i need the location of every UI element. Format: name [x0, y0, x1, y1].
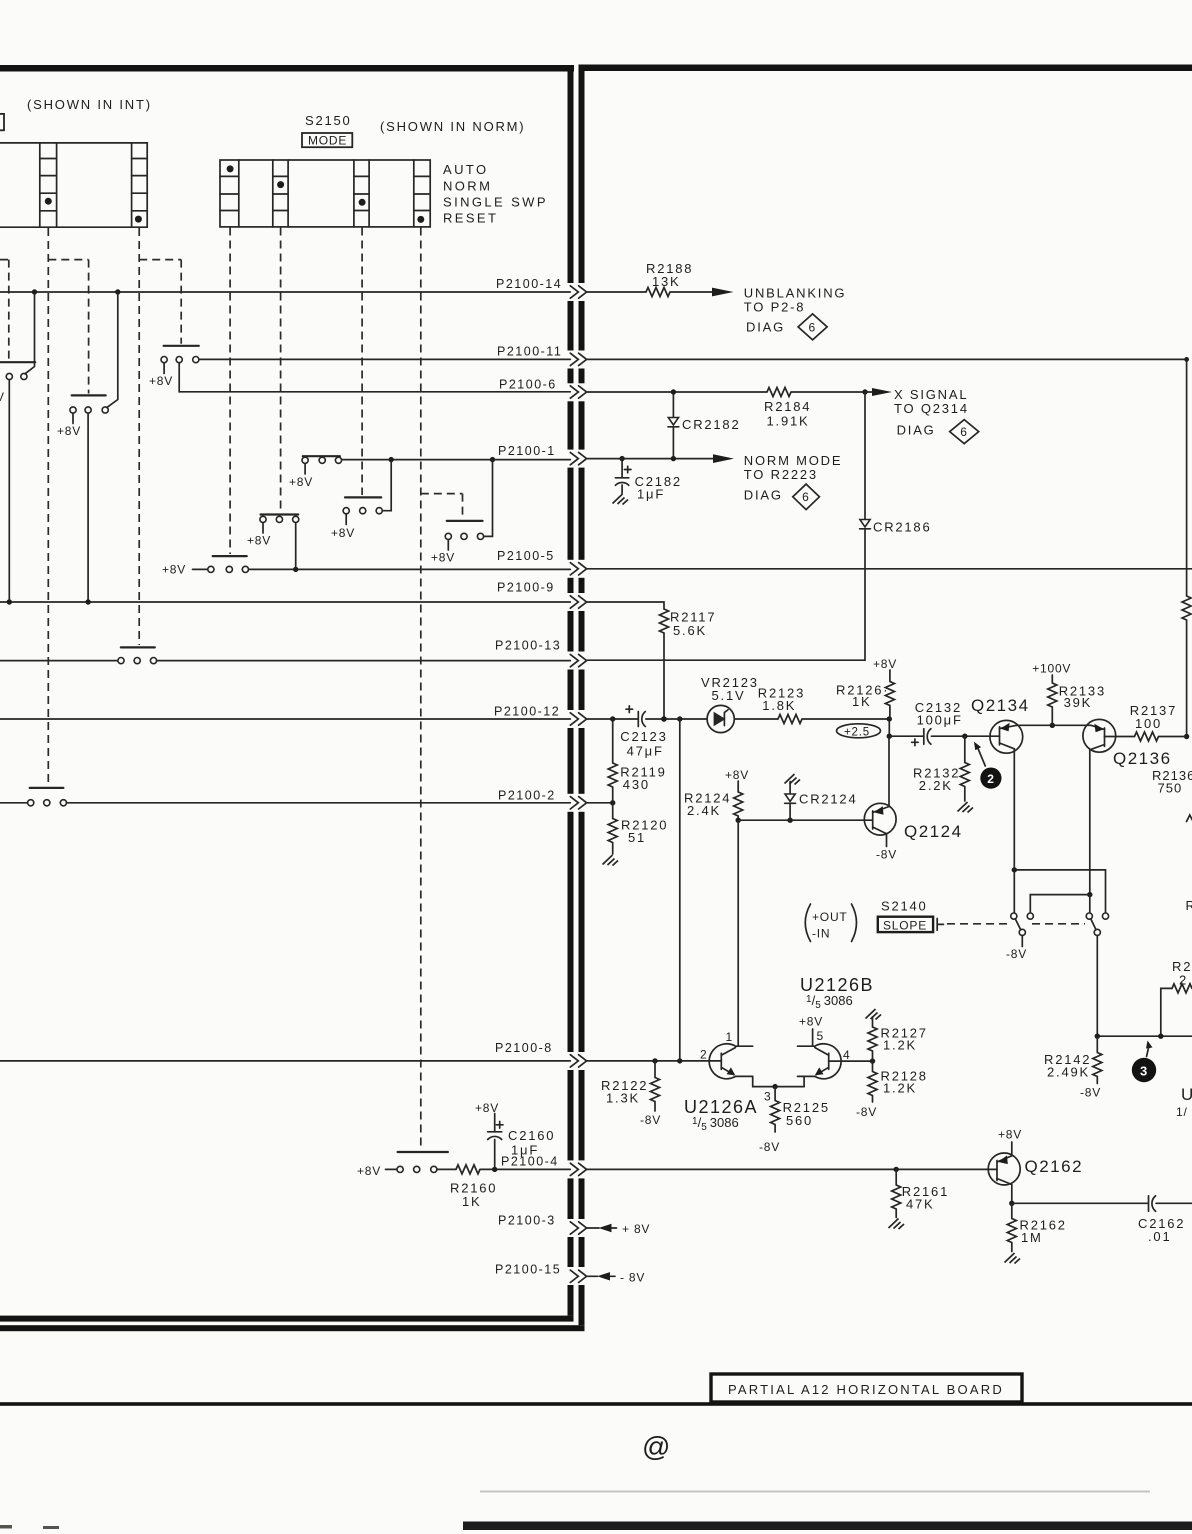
svg-text:RESET: RESET	[443, 211, 498, 226]
frame: left section bottom border (outer line)	[0, 1325, 585, 1331]
wire row P2100-9 right to R2117	[587, 602, 664, 609]
resistor R2123	[778, 715, 802, 724]
dashed branch to contact KF	[421, 494, 463, 519]
MODE box	[302, 133, 352, 147]
board title box	[711, 1374, 1022, 1402]
svg-text:V: V	[0, 390, 5, 404]
switch contact KD	[303, 455, 340, 457]
emitter row to C2162	[1012, 1202, 1148, 1204]
wire KA stub to +8V	[262, 523, 264, 533]
svg-text:+8V: +8V	[998, 1128, 1022, 1142]
svg-text:TO Q2314: TO Q2314	[894, 401, 969, 416]
svg-text:.01: .01	[1148, 1229, 1171, 1244]
svg-text:-8V: -8V	[640, 1113, 661, 1127]
svg-text:2: 2	[987, 772, 994, 786]
svg-text:5: 5	[817, 1029, 824, 1043]
node on P2100-14	[115, 289, 120, 294]
resistor R2120	[612, 803, 614, 819]
svg-text:S2140: S2140	[881, 899, 928, 914]
node P2100-1 / KE	[389, 457, 394, 462]
wire row P2100-2 right	[587, 802, 613, 804]
svg-text:+2.5: +2.5	[844, 726, 870, 738]
wire KD stub to +8V	[304, 464, 306, 475]
resistor R2127 with ground	[866, 1009, 882, 1020]
svg-text:CR2182: CR2182	[682, 417, 741, 432]
wire pin1 vertical up to CR2124 node	[737, 820, 739, 1046]
switch contact K3	[72, 394, 106, 396]
svg-text:47μF: 47μF	[627, 744, 664, 759]
chevron P2100-9	[570, 596, 586, 608]
svg-text:P2100-13: P2100-13	[495, 639, 561, 653]
resistor R2119	[612, 719, 614, 763]
resistor R2188	[646, 288, 670, 297]
svg-text:1K: 1K	[852, 694, 872, 709]
transistor Q2134	[990, 720, 1023, 753]
resistor R2122	[654, 1061, 656, 1078]
svg-text:- 8V: - 8V	[620, 1271, 645, 1285]
svg-text:P2100-8: P2100-8	[495, 1041, 553, 1055]
wire right-edge vertical	[1186, 359, 1188, 596]
resistor fragment right edge	[1187, 815, 1192, 822]
svg-text:+8V: +8V	[873, 657, 897, 671]
svg-text:CR2186: CR2186	[873, 520, 932, 535]
svg-text:2.49K: 2.49K	[1047, 1065, 1090, 1080]
wire pin4 line	[829, 1060, 873, 1062]
chevron P2100-2	[570, 797, 586, 809]
wire contact K1 to P2100-14	[25, 292, 35, 374]
resistor R2117	[660, 609, 669, 633]
chevron P2100-5	[570, 563, 586, 575]
svg-text:1.3K: 1.3K	[606, 1091, 640, 1106]
chevron P2100-15	[570, 1270, 586, 1282]
svg-text:UNBLANKING: UNBLANKING	[744, 286, 847, 301]
resistor R2128	[872, 1061, 874, 1071]
svg-text:1K: 1K	[462, 1194, 482, 1209]
wire P2100-3 right with arrow	[587, 1227, 599, 1229]
wire Q2134 collector down	[1013, 749, 1015, 870]
frame: right section top border	[579, 65, 1192, 72]
dashed link from MODE col4 (long)	[420, 228, 422, 1151]
transistor Q2136	[1083, 719, 1116, 752]
wire row P2100-12	[0, 718, 570, 720]
dashed mechanical link S2140	[947, 923, 1009, 925]
chevron P2100-11	[570, 353, 586, 365]
svg-text:4: 4	[843, 1048, 850, 1062]
wire vertical P2100-12 to P2100-8	[679, 719, 681, 1061]
wire emitter rail	[1017, 724, 1091, 726]
wire row P2100-1 from contact KD	[342, 459, 571, 461]
ground	[613, 494, 629, 505]
svg-text:-8V: -8V	[1080, 1086, 1101, 1100]
switch contact KC in row P2100-13	[0, 660, 118, 662]
svg-text:-8V: -8V	[856, 1105, 877, 1119]
dashed branch to contact K3	[48, 260, 88, 394]
svg-text:6: 6	[809, 321, 816, 335]
svg-text:P2100-12: P2100-12	[494, 705, 560, 719]
node P2100-1 / KF	[490, 457, 495, 462]
slope switch bus wires	[1014, 870, 1105, 913]
capacitor C2182	[621, 459, 623, 478]
wire row P2100-12 right	[587, 718, 638, 720]
svg-text:Q2134: Q2134	[971, 696, 1030, 715]
resistor (right edge)	[1182, 596, 1191, 620]
svg-text:SLOPE: SLOPE	[883, 919, 927, 933]
svg-text:P2100-14: P2100-14	[496, 277, 562, 291]
svg-text:SINGLE SWP: SINGLE SWP	[443, 195, 548, 210]
svg-text:430: 430	[623, 777, 650, 792]
svg-text:Q2124: Q2124	[904, 822, 963, 841]
resistor R2132	[964, 736, 966, 762]
chevron P2100-3	[570, 1222, 586, 1234]
svg-text:S2150: S2150	[305, 113, 352, 128]
svg-text:+8V: +8V	[57, 424, 81, 438]
svg-text:@: @	[642, 1431, 670, 1462]
svg-text:NORM: NORM	[443, 179, 492, 194]
svg-text:+8V: +8V	[247, 534, 271, 548]
wire row P2100-14	[0, 291, 570, 293]
wire KE up to P2100-1	[382, 460, 391, 511]
arrow to unblanking	[712, 288, 734, 297]
svg-text:NORM MODE: NORM MODE	[744, 453, 843, 468]
svg-text:+8V: +8V	[162, 563, 186, 577]
switch contact KE	[345, 496, 381, 498]
resistor R2161	[895, 1169, 897, 1185]
svg-text:1.91K: 1.91K	[767, 414, 810, 429]
svg-text:2.2K: 2.2K	[919, 778, 953, 793]
svg-text:+8V: +8V	[149, 374, 173, 388]
bottom rule	[0, 1402, 1192, 1406]
svg-text:+8V: +8V	[357, 1164, 381, 1178]
wire row P2100-5 from contact KB	[249, 568, 571, 570]
switch contact KG in row P2100-2	[0, 802, 28, 804]
wire row P2100-8	[0, 1060, 570, 1062]
svg-text:-8V: -8V	[759, 1140, 780, 1154]
wire row P2100-5 right (full width)	[587, 568, 1192, 570]
svg-text:R: R	[1186, 898, 1192, 913]
diode CR2124 with ground	[785, 774, 801, 785]
svg-text:+ 8V: + 8V	[622, 1222, 650, 1236]
wire K3 stub to +8V	[72, 413, 74, 423]
svg-text:+8V: +8V	[725, 768, 749, 782]
switch wafer S2150 section MODE	[220, 160, 430, 227]
svg-text:6: 6	[960, 425, 967, 439]
wire	[734, 718, 778, 720]
chevron P2100-4	[570, 1163, 586, 1175]
dashed link far-left	[0, 260, 9, 360]
svg-text:+8V: +8V	[799, 1015, 823, 1029]
chevron P2100-13	[570, 654, 586, 666]
wire K2 stub to +8V	[163, 363, 165, 374]
svg-text:PARTIAL A12 HORIZONTAL BOARD: PARTIAL A12 HORIZONTAL BOARD	[728, 1382, 1004, 1397]
svg-text:3: 3	[1140, 1064, 1147, 1079]
svg-text:5.6K: 5.6K	[673, 623, 707, 638]
frame: left section bottom border (inner line)	[0, 1316, 574, 1322]
svg-text:DIAG: DIAG	[744, 488, 783, 503]
wire base line Q2124	[738, 819, 864, 821]
label box fragment at left edge	[0, 114, 4, 130]
switch contact KA	[261, 513, 299, 515]
svg-text:1: 1	[726, 1030, 733, 1044]
svg-text:C2123: C2123	[620, 729, 667, 744]
svg-text:6: 6	[802, 490, 809, 504]
node C2160	[492, 1167, 497, 1172]
svg-text:1/: 1/	[1176, 1105, 1188, 1119]
switch contact K2	[164, 345, 199, 347]
svg-text:47K: 47K	[906, 1197, 935, 1212]
svg-text:1.8K: 1.8K	[762, 698, 796, 713]
wire KF up to P2100-1	[484, 460, 493, 537]
svg-text:+8V: +8V	[331, 526, 355, 540]
wire row P2100-4 right	[587, 1168, 989, 1170]
chevron P2100-14	[570, 286, 586, 298]
wire node drop	[888, 719, 890, 736]
wire K3 to P2100-9	[87, 413, 89, 600]
svg-text:MODE: MODE	[308, 134, 347, 148]
arrow norm mode	[713, 454, 734, 463]
svg-text:X SIGNAL: X SIGNAL	[894, 387, 968, 402]
wire K3 to P2100-14	[107, 292, 118, 408]
test point 3	[1132, 1058, 1156, 1082]
diode CR2182	[672, 395, 674, 417]
switch S2140 pole 1	[1011, 913, 1017, 919]
svg-text:P2100-15: P2100-15	[495, 1263, 561, 1277]
svg-text:(SHOWN IN NORM): (SHOWN IN NORM)	[380, 119, 525, 134]
faint scan line	[480, 1491, 1150, 1493]
svg-text:P2100-9: P2100-9	[497, 581, 555, 595]
switch S2140 pole 2	[1086, 913, 1092, 919]
resistor R2125	[774, 1087, 776, 1101]
svg-text:+8V: +8V	[475, 1101, 499, 1115]
svg-text:(SHOWN IN INT): (SHOWN IN INT)	[27, 97, 152, 112]
ground	[958, 802, 974, 813]
svg-text:+8V: +8V	[289, 475, 313, 489]
svg-text:1μF: 1μF	[637, 487, 665, 502]
svg-text:+100V: +100V	[1032, 662, 1071, 676]
svg-text:P2100-6: P2100-6	[499, 378, 557, 392]
resistor R2160	[456, 1165, 480, 1174]
svg-text:100: 100	[1135, 716, 1162, 731]
svg-text:3: 3	[764, 1090, 771, 1104]
wire row P2100-9	[0, 601, 570, 603]
wire KF stub to +8V	[447, 540, 449, 550]
svg-text:2.4K: 2.4K	[687, 803, 721, 818]
arrow X signal	[872, 388, 892, 396]
svg-text:+OUT: +OUT	[812, 910, 848, 924]
capacitor C2123	[637, 712, 639, 727]
svg-text:Q2136: Q2136	[1113, 749, 1172, 768]
capacitor C2132	[889, 735, 924, 737]
frame: left section top border	[0, 65, 574, 72]
svg-text:2: 2	[700, 1048, 707, 1062]
wire row P2100-14 right	[587, 291, 646, 293]
wire contact K1 to P2100-9	[8, 380, 10, 601]
IC transistor U2126B	[798, 1046, 815, 1076]
dashed branch to contact K2	[139, 260, 181, 344]
node on P2100-14	[32, 289, 37, 294]
wire row P2100-11 right (to right edge vertical)	[587, 358, 1187, 360]
svg-text:TO R2223: TO R2223	[744, 467, 818, 482]
svg-text:DIAG: DIAG	[746, 320, 785, 335]
svg-text:+8V: +8V	[431, 551, 455, 565]
svg-text:U2126B: U2126B	[800, 975, 874, 995]
zener VR2123	[707, 705, 734, 732]
(+OUT -IN) annotation	[805, 904, 810, 942]
chevron P2100-12	[570, 713, 586, 725]
dashed link from MODE col2	[280, 228, 282, 513]
test point 2	[980, 768, 1001, 789]
svg-text:P2100-5: P2100-5	[497, 549, 555, 563]
chevron P2100-8	[570, 1055, 586, 1067]
board edge connector bar right (dashed at wire crossings)	[579, 70, 585, 1325]
resistor R2184	[767, 388, 791, 397]
chevron P2100-1	[570, 452, 586, 464]
svg-text:AUTO: AUTO	[443, 162, 488, 177]
wire row P2100-6 from contact K2	[179, 363, 570, 392]
transistor Q2162	[988, 1153, 1020, 1185]
node P2100-5 / KA	[293, 567, 298, 572]
wire row P2100-6 right	[587, 391, 767, 393]
wire row P2100-13 right	[587, 659, 865, 661]
svg-text:TO P2-8: TO P2-8	[744, 300, 806, 315]
svg-text:DIAG: DIAG	[897, 423, 936, 438]
wire Q2136 collector down	[1089, 750, 1091, 895]
wire pin5 to +8V	[812, 1029, 814, 1046]
svg-text:R2184: R2184	[764, 399, 811, 414]
switch wafer S2150 section INT	[0, 143, 147, 227]
dashed link from MODE col1	[229, 228, 231, 555]
wire row P2100-11 from contact K2	[199, 358, 570, 360]
svg-text:-8V: -8V	[1006, 947, 1027, 961]
svg-text:100μF: 100μF	[917, 713, 963, 728]
ground	[603, 855, 619, 866]
svg-text:U2: U2	[1181, 1085, 1192, 1104]
svg-text:P2100-11: P2100-11	[497, 345, 562, 359]
svg-text:P2100-2: P2100-2	[498, 789, 556, 803]
wire KA to P2100-5	[295, 523, 297, 570]
capacitor C2160	[494, 1140, 496, 1167]
svg-text:51: 51	[628, 830, 646, 845]
svg-text:1M: 1M	[1021, 1230, 1043, 1245]
svg-text:C2160: C2160	[508, 1128, 555, 1143]
svg-text:U2126A: U2126A	[684, 1097, 758, 1117]
wire row P2100-1 right	[587, 458, 713, 460]
svg-text:P2100-3: P2100-3	[498, 1214, 556, 1228]
board edge connector bar left (dashed at wire crossings)	[568, 70, 574, 1316]
svg-text:-IN: -IN	[812, 927, 830, 941]
switch contact K1	[0, 361, 35, 363]
svg-text:CR2124: CR2124	[799, 792, 858, 807]
svg-text:Q2162: Q2162	[1025, 1157, 1084, 1176]
wire emitter to pin3 bus	[753, 1076, 804, 1086]
wire KE stub to +8V	[345, 514, 347, 525]
transistor Q2124	[864, 803, 896, 835]
diamond diag 6	[950, 420, 979, 444]
wire P2100-15 right with arrow	[587, 1275, 598, 1277]
svg-text:5.1V: 5.1V	[712, 688, 746, 703]
svg-text:750: 750	[1158, 781, 1183, 796]
page edge band	[463, 1522, 1192, 1531]
chevron P2100-6	[570, 386, 586, 398]
IC transistor U2126A	[736, 1046, 753, 1076]
dashed link from MODE col3	[361, 228, 363, 496]
diamond diag 6	[793, 484, 820, 510]
dashed link from INT wafer col2	[138, 228, 140, 645]
svg-text:-8V: -8V	[876, 848, 897, 862]
svg-text:1.2K: 1.2K	[883, 1081, 917, 1096]
resistor R2142	[1096, 1036, 1098, 1052]
svg-text:13K: 13K	[652, 274, 681, 289]
dashed link from INT wafer col1	[47, 228, 49, 785]
svg-text:39K: 39K	[1064, 695, 1093, 710]
switch contact KF	[447, 520, 483, 522]
svg-text:1.2K: 1.2K	[883, 1038, 917, 1053]
diamond diag 6	[798, 314, 827, 340]
wire to R2160	[437, 1168, 456, 1170]
wire row P2100-8 right / U2126A base	[587, 1060, 722, 1062]
diode CR2186	[864, 392, 866, 519]
resistor R2137	[1135, 732, 1159, 741]
voltage oval +2.5	[837, 724, 881, 738]
svg-text:P2100-4: P2100-4	[501, 1155, 559, 1169]
wire emitter B to pin3 bus	[803, 1076, 805, 1086]
svg-text:560: 560	[786, 1113, 813, 1128]
svg-text:P2100-1: P2100-1	[498, 444, 556, 458]
resistor R2162	[1011, 1203, 1013, 1218]
capacitor C2162	[1148, 1196, 1150, 1212]
